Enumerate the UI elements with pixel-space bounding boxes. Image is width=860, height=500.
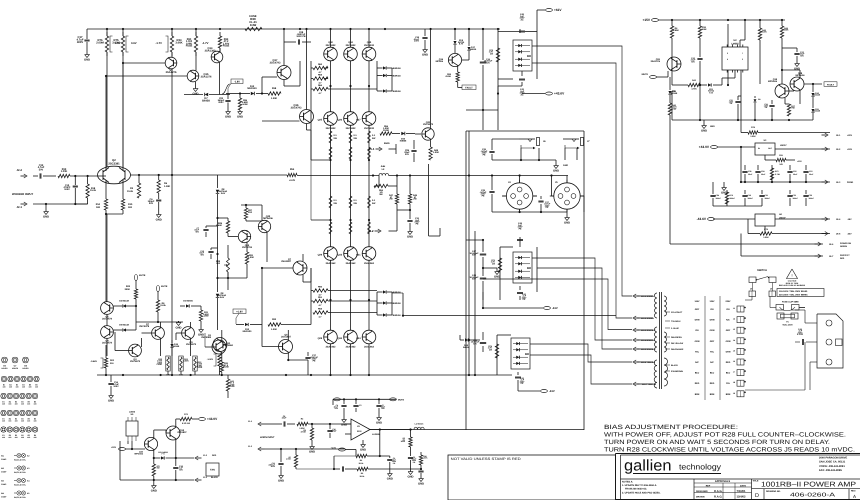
wire bias node xyxy=(389,144,397,154)
wire Q2 output right xyxy=(131,174,173,176)
svg-text:1/4W: 1/4W xyxy=(204,315,209,318)
svg-text:MUTE: MUTE xyxy=(398,399,405,402)
svg-text:E1: E1 xyxy=(2,417,4,420)
svg-text:GND: GND xyxy=(376,421,382,424)
svg-text:D6 N4936: D6 N4936 xyxy=(183,300,193,303)
svg-text:100-120V: T8AL 250V 50A8S: 100-120V: T8AL 250V 50A8S xyxy=(779,290,808,293)
resistor R49 xyxy=(408,176,417,205)
zener ZD3 xyxy=(699,83,722,94)
svg-text:1/4W: 1/4W xyxy=(250,24,257,27)
terminal +43.6V xyxy=(497,86,565,96)
wire switch legs xyxy=(753,283,773,292)
svg-text:DB-ORANGE: DB-ORANGE xyxy=(671,348,684,351)
capacitor C17 xyxy=(76,29,89,53)
svg-text:FUSE: FUSE xyxy=(249,15,256,18)
IC U3 LM317 xyxy=(755,139,787,155)
diode D17 xyxy=(467,28,477,58)
node on top rail xyxy=(283,28,285,30)
resistor R37 xyxy=(244,205,253,219)
wire U2 pins xyxy=(722,20,745,96)
svg-text:SAN JOSE CA. 95131: SAN JOSE CA. 95131 xyxy=(819,461,846,464)
svg-text:BR: BR xyxy=(527,267,531,270)
resistor R50 feedback xyxy=(287,168,297,182)
svg-text:E6: E6 xyxy=(34,400,36,403)
svg-text:FUSE: FUSE xyxy=(223,44,230,47)
wire mid-left vertical xyxy=(216,206,218,290)
wire BR3 outputs harness xyxy=(532,46,632,318)
wire Q16 collector xyxy=(306,29,308,110)
voltage table row xyxy=(695,319,731,322)
svg-text:GND: GND xyxy=(494,275,500,278)
svg-text:GND: GND xyxy=(309,450,315,453)
voltage table row xyxy=(695,382,731,385)
svg-text:K5: K5 xyxy=(27,492,29,495)
transformer secondary windings xyxy=(664,296,668,386)
svg-text:BUR410: BUR410 xyxy=(393,90,402,93)
svg-text:J10-6 YELLOW: J10-6 YELLOW xyxy=(641,361,655,364)
capacitor C23 xyxy=(218,94,231,119)
svg-text:-0.66V: -0.66V xyxy=(90,360,97,363)
svg-text:X-CAP: X-CAP xyxy=(797,333,804,336)
wire R10 tap xyxy=(392,468,422,470)
net fault to right xyxy=(804,82,837,87)
text notes xyxy=(622,480,661,494)
node on top rail xyxy=(195,28,197,30)
wire mains routing xyxy=(745,297,817,391)
svg-text:BLACK: BLACK xyxy=(211,476,219,479)
svg-text:-61V: -61V xyxy=(552,307,558,310)
ground Q15 emitter xyxy=(192,82,198,95)
resistor R72 xyxy=(152,458,160,480)
svg-text:D: D xyxy=(755,493,759,499)
svg-text:FUSE: FUSE xyxy=(197,366,203,369)
capacitor C38 xyxy=(469,239,486,268)
svg-text:E5: E5 xyxy=(28,417,30,420)
svg-text:406-0260-A: 406-0260-A xyxy=(790,493,835,499)
svg-text:E2: E2 xyxy=(9,400,11,403)
svg-text:1.00K: 1.00K xyxy=(271,328,277,331)
svg-text:BIAS ADJUSTMENT PROCEDURE:: BIAS ADJUSTMENT PROCEDURE: xyxy=(604,424,738,431)
svg-text:GND: GND xyxy=(151,489,157,492)
svg-text:3.6V: 3.6V xyxy=(221,192,226,195)
svg-text:BUR410: BUR410 xyxy=(393,314,402,317)
svg-text:2. UPDATE HOLE AND PAD SIZES.: 2. UPDATE HOLE AND PAD SIZES. xyxy=(622,491,661,494)
svg-text:VOICE: 408-441-8081: VOICE: 408-441-8081 xyxy=(819,465,845,468)
svg-text:2W: 2W xyxy=(490,52,493,55)
op-amp U1 xyxy=(345,419,380,440)
svg-text:L4936: L4936 xyxy=(129,411,136,414)
svg-text:AC: AC xyxy=(520,94,524,97)
resistor R36 xyxy=(237,92,249,118)
svg-text:D4 N4148: D4 N4148 xyxy=(119,300,129,303)
wire speakon bottoms xyxy=(492,209,567,216)
svg-text:Q31: Q31 xyxy=(356,254,361,257)
wire mains hot xyxy=(795,308,817,324)
svg-text:GND: GND xyxy=(198,333,204,336)
svg-text:COMP: COMP xyxy=(1,496,7,499)
wire zobel join xyxy=(397,204,411,211)
svg-text:BRN: BRN xyxy=(726,393,731,396)
svg-text:E4: E4 xyxy=(21,417,23,420)
svg-text:E2: E2 xyxy=(9,417,11,420)
svg-text:+43.6V: +43.6V xyxy=(554,92,565,96)
wire BR1 frame xyxy=(497,335,511,375)
svg-text:W3: W3 xyxy=(1,480,4,483)
svg-text:MPSA06: MPSA06 xyxy=(134,452,143,455)
bias connector J5-1 xyxy=(369,142,390,151)
svg-text:DRAWN: DRAWN xyxy=(696,496,705,499)
wire emitter join xyxy=(105,210,123,215)
node on top rail xyxy=(497,28,499,30)
ground J8 xyxy=(721,181,742,194)
svg-text:A: A xyxy=(853,494,856,499)
wire output column verticals xyxy=(330,29,332,375)
svg-text:MUTE: MUTE xyxy=(642,73,649,76)
node on top rail xyxy=(468,28,470,30)
transistor Q25 2SC5242 xyxy=(318,112,338,130)
wire feedback line xyxy=(171,174,287,176)
resistor R6 xyxy=(157,175,171,193)
resistor R19 xyxy=(58,168,98,178)
base ladder resistors upper xyxy=(313,63,328,74)
svg-text:2W: 2W xyxy=(389,198,392,201)
svg-text:GRN: GRN xyxy=(726,350,731,353)
svg-text:GRY: GRY xyxy=(710,340,715,343)
svg-text:100uF: 100uF xyxy=(765,197,771,200)
svg-text:HOLES: HOLES xyxy=(12,367,19,370)
resistor R74 xyxy=(488,344,499,358)
svg-text:!: ! xyxy=(791,274,792,278)
zener D8b bottom xyxy=(216,290,227,330)
node on top rail xyxy=(171,28,173,30)
terminal MUTE opamp xyxy=(390,398,405,402)
svg-text:2- BLUE: 2- BLUE xyxy=(671,327,679,330)
bridge rectifier BR3 xyxy=(513,40,532,71)
node on top rail xyxy=(122,28,124,30)
wire jack bus xyxy=(492,138,519,140)
resistor R28 pot xyxy=(216,245,230,290)
svg-text:GND: GND xyxy=(387,477,393,480)
svg-text:E6: E6 xyxy=(34,434,36,437)
svg-text:SWITCH: SWITCH xyxy=(757,269,767,272)
capacitor C18 xyxy=(413,29,428,56)
svg-text:GND: GND xyxy=(108,399,114,402)
svg-text:GND: GND xyxy=(156,218,162,221)
logo gallien xyxy=(624,458,721,475)
svg-text:Q25: Q25 xyxy=(318,119,323,122)
svg-text:3.6V: 3.6V xyxy=(220,296,225,299)
svg-text:R75: R75 xyxy=(730,194,733,197)
terminal +43.0V fan xyxy=(199,417,218,421)
svg-text:10uF: 10uF xyxy=(282,417,287,420)
svg-text:J7: J7 xyxy=(733,371,735,374)
diode D12 xyxy=(240,85,268,95)
transistor Q17 xyxy=(270,29,291,80)
svg-text:R15: R15 xyxy=(128,203,133,206)
svg-text:GRN: GRN xyxy=(695,319,700,322)
svg-text:GND: GND xyxy=(701,129,707,132)
svg-text:LA3080: LA3080 xyxy=(372,433,380,436)
svg-text:RED: RED xyxy=(726,361,731,364)
svg-text:COMP: COMP xyxy=(1,458,7,461)
svg-text:3.00K: 3.00K xyxy=(183,360,189,363)
svg-text:120V: 120V xyxy=(710,300,716,303)
capacitor C38b xyxy=(480,28,493,72)
title block frame xyxy=(616,454,860,500)
svg-text:YEL: YEL xyxy=(695,350,700,353)
svg-text:T30-GRAY: T30-GRAY xyxy=(671,320,681,323)
svg-text:7/10/01: 7/10/01 xyxy=(737,490,747,493)
transistor Q4 xyxy=(101,326,114,345)
wire R76 to rail xyxy=(106,29,108,36)
capacitor C40 xyxy=(498,13,537,44)
text approvals table xyxy=(696,480,746,499)
emitter resistors row2-3 xyxy=(329,196,338,234)
capacitor C16 horn xyxy=(418,471,424,485)
mount list xyxy=(1,453,29,461)
svg-text:2.00M: 2.00M xyxy=(96,41,104,44)
svg-text:DRAWING NO.: DRAWING NO. xyxy=(766,490,781,493)
resistor R79 xyxy=(748,219,830,239)
connector J2-2 arrow xyxy=(17,169,27,178)
resistor R18 xyxy=(86,176,97,204)
zener ZD5 xyxy=(453,28,465,54)
diode D9 xyxy=(754,96,761,120)
connector J10-6 arrow xyxy=(633,360,655,364)
node on top rail xyxy=(368,28,370,30)
svg-text:J2: J2 xyxy=(733,318,735,321)
resistor R48 xyxy=(429,140,439,160)
svg-text:3.06K: 3.06K xyxy=(175,41,182,44)
ground mid xyxy=(175,321,181,329)
svg-text:LM555: LM555 xyxy=(731,43,739,46)
svg-text:2SC3060: 2SC3060 xyxy=(201,336,211,339)
transistor Q1 xyxy=(201,334,227,352)
svg-text:BRN: BRN xyxy=(710,393,715,396)
svg-text:400V: 400V xyxy=(77,41,84,44)
resistor R9c xyxy=(345,467,392,478)
transistor Q3 xyxy=(129,344,142,363)
svg-text:100uF: 100uF xyxy=(793,197,799,200)
wire R34 to rail xyxy=(171,29,173,36)
ground speakon xyxy=(566,216,568,218)
capacitor C6 xyxy=(148,193,162,213)
inductor L3 xyxy=(379,165,389,176)
svg-text:AC: AC xyxy=(520,19,524,22)
wire Q16 emitter xyxy=(307,124,312,131)
svg-text:+15V: +15V xyxy=(111,446,117,449)
svg-text:+15V: +15V xyxy=(797,160,802,163)
resistor R54 zobel xyxy=(374,176,388,188)
transistor Q6 2SA1837 xyxy=(279,334,293,354)
svg-text:1.00K: 1.00K xyxy=(750,135,756,138)
svg-text:R6: R6 xyxy=(360,459,362,462)
wire gnd rail topright xyxy=(672,91,813,121)
svg-text:BLU: BLU xyxy=(695,372,700,375)
svg-text:C35: C35 xyxy=(748,170,751,173)
IC U4 LM337 xyxy=(713,213,830,226)
wire opamp supply rail xyxy=(333,398,396,405)
connector J10-7 arrow xyxy=(633,382,656,386)
svg-text:N4148: N4148 xyxy=(814,94,821,97)
svg-text:REF: REF xyxy=(706,484,711,487)
terminal J8-2 +15V xyxy=(822,147,853,151)
svg-text:J10-5 ORANGE: J10-5 ORANGE xyxy=(641,348,656,351)
svg-text:PGND: PGND xyxy=(847,181,854,184)
svg-text:J6: J6 xyxy=(733,360,735,363)
svg-text:200V: 200V xyxy=(218,101,224,104)
capacitor C3 xyxy=(353,399,361,412)
transistor Q28 xyxy=(790,72,805,91)
fan box xyxy=(206,463,219,476)
svg-text:DB-YELLOW: DB-YELLOW xyxy=(671,342,683,345)
svg-text:E1: E1 xyxy=(2,434,4,437)
svg-text:TITLE: TITLE xyxy=(753,480,759,483)
connector J2-1 arrow xyxy=(17,202,27,209)
varistor curve xyxy=(222,84,230,94)
svg-text:6.2Ω 1W: 6.2Ω 1W xyxy=(182,422,190,425)
svg-text:K3: K3 xyxy=(27,467,29,470)
resistor R27 xyxy=(785,104,796,116)
wire tail current source xyxy=(105,214,107,302)
svg-text:J8: J8 xyxy=(733,381,735,384)
svg-text:APPROVALS: APPROVALS xyxy=(715,480,731,483)
svg-text:FAULT: FAULT xyxy=(827,83,835,86)
capacitor C34 xyxy=(764,100,775,120)
svg-text:C30: C30 xyxy=(809,194,812,197)
transistor Q32 2SC5242 xyxy=(324,41,338,61)
svg-text:RED: RED xyxy=(840,257,845,260)
resistor R41 xyxy=(207,352,221,376)
wire output to jacks xyxy=(389,174,568,176)
svg-text:2SA1837: 2SA1837 xyxy=(281,336,291,339)
wire Q16 base xyxy=(262,120,300,122)
wire BR1 outputs harness xyxy=(530,344,632,384)
svg-text:100V: 100V xyxy=(695,300,701,303)
resistor R43b xyxy=(729,96,741,120)
svg-text:2.71K: 2.71K xyxy=(775,173,781,176)
svg-text:-1.7V: -1.7V xyxy=(156,42,163,45)
capacitor C10 left xyxy=(199,248,217,259)
svg-text:63V: 63V xyxy=(472,278,476,281)
svg-text:J10-4 BROWN: J10-4 BROWN xyxy=(641,339,655,342)
svg-text:L1 50mm: L1 50mm xyxy=(415,423,424,426)
svg-text:7: 7 xyxy=(742,52,743,55)
svg-text:MPSA06: MPSA06 xyxy=(263,217,273,220)
wire Q21 collector xyxy=(430,29,432,128)
svg-text:1.00K: 1.00K xyxy=(271,97,278,100)
svg-text:K2: K2 xyxy=(27,455,29,458)
svg-text:+43.0V: +43.0V xyxy=(207,417,218,421)
capacitor C30 xyxy=(407,210,420,230)
wire Q6 links xyxy=(262,268,308,361)
capacitor C42 xyxy=(517,286,527,301)
resistor R14 xyxy=(96,199,108,210)
capacitor C1 left xyxy=(269,448,285,482)
connector J3-2 xyxy=(195,454,217,460)
wire R75 to rail xyxy=(122,29,124,36)
svg-text:-1.00V: -1.00V xyxy=(207,358,214,361)
transistor Q15 xyxy=(187,52,212,82)
svg-text:FAX: 408-441-8085: FAX: 408-441-8085 xyxy=(819,469,842,472)
svg-text:E2: E2 xyxy=(9,434,11,437)
svg-text:FAN: FAN xyxy=(210,469,215,472)
svg-text:4.64K: 4.64K xyxy=(216,224,222,227)
resistor R34 xyxy=(156,32,183,56)
svg-text:W4,Z4,20 CHL: W4,Z4,20 CHL xyxy=(14,484,27,487)
node on top rail xyxy=(482,28,484,30)
transistor Q9 xyxy=(182,327,197,346)
resistor R20 emitter xyxy=(220,362,229,372)
resistor R45 xyxy=(758,20,767,84)
svg-text:GND: GND xyxy=(175,326,181,329)
svg-text:BUR410: BUR410 xyxy=(393,75,402,78)
resistor R10 horn xyxy=(419,452,428,470)
svg-text:TURN POWER ON AND WAIT 5 SECON: TURN POWER ON AND WAIT 5 SECONDS FOR TUR… xyxy=(604,439,830,446)
svg-text:220pF: 220pF xyxy=(331,430,337,433)
inductor L1 out xyxy=(414,423,424,430)
transistor Q7b xyxy=(139,323,164,339)
wire output node rail xyxy=(297,174,379,176)
resistor R71 xyxy=(491,258,502,272)
wire Q2 emitters down xyxy=(106,180,123,199)
net label +1.8V xyxy=(233,309,246,324)
transistor Q13 xyxy=(238,230,252,249)
svg-text:R.A.G.: R.A.G. xyxy=(714,490,723,493)
svg-text:R.A.G.: R.A.G. xyxy=(714,496,723,499)
terminal +15V topright xyxy=(642,18,785,22)
voltage table row xyxy=(695,340,731,343)
capacitor C39 xyxy=(471,332,486,352)
terminal J8-1 +20V xyxy=(822,133,853,137)
svg-text:Q30: Q30 xyxy=(338,337,343,340)
svg-text:GND: GND xyxy=(553,169,559,172)
svg-text:C10: C10 xyxy=(748,194,751,197)
wire pgnd rail xyxy=(741,147,830,183)
wire speakon sides xyxy=(502,196,584,212)
svg-text:FUSE: FUSE xyxy=(157,363,163,366)
svg-text:RED: RED xyxy=(212,454,217,457)
transistor Q27 2SC5242 xyxy=(356,112,376,130)
resistor R5 xyxy=(127,175,141,198)
transistor Q31 2SA1962 xyxy=(356,247,376,265)
capacitor bank lower xyxy=(710,190,721,206)
bridge rectifier BR1 xyxy=(511,338,530,369)
svg-text:E3: E3 xyxy=(15,400,17,403)
terminal -43.6V right xyxy=(697,217,715,221)
zener D8 top xyxy=(216,175,228,206)
svg-text:GND: GND xyxy=(43,215,49,218)
fuse clips xyxy=(776,305,799,311)
capacitor C27 xyxy=(538,196,551,212)
capacitor C8 xyxy=(280,415,295,427)
bridge rectifier BR2 xyxy=(513,252,532,283)
voltage table columns xyxy=(705,296,720,400)
svg-text:YEL: YEL xyxy=(726,382,731,385)
transistor Q10 xyxy=(134,437,157,455)
wire C20 gnd xyxy=(699,84,701,120)
ground relay xyxy=(151,480,157,492)
svg-text:B6458: B6458 xyxy=(202,99,210,102)
capacitor C5 xyxy=(380,456,397,480)
capacitor C29 xyxy=(404,140,416,162)
wire U3 out xyxy=(775,148,830,150)
transistor Q8 xyxy=(165,52,177,74)
svg-text:GND: GND xyxy=(563,164,568,167)
svg-text:HORN INPUT: HORN INPUT xyxy=(260,436,275,439)
transistor Q34 2SC5242 xyxy=(344,41,358,61)
wire Q17 base xyxy=(261,77,277,95)
